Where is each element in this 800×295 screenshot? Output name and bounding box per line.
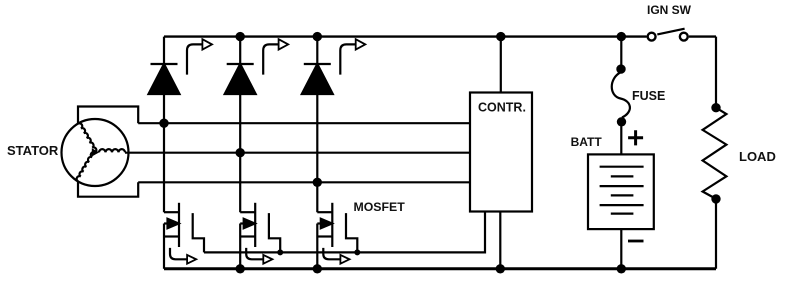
stator winding right [99, 149, 125, 152]
node top rail fuse [617, 32, 626, 41]
battery plate long 1 [600, 166, 644, 168]
node phase1 col1 [159, 119, 168, 128]
svg-text:BATT: BATT [571, 135, 603, 149]
node phase3 col3 [313, 178, 322, 187]
stator frame [78, 107, 138, 197]
node phase2 col2 [236, 148, 245, 157]
battery plate long 2 [600, 185, 644, 187]
wire load column top [715, 37, 717, 108]
node top rail col2 [236, 32, 245, 41]
node top rail contr [496, 32, 505, 41]
stator circle [62, 119, 129, 186]
battery plus sign [628, 130, 643, 145]
svg-text:LOAD: LOAD [739, 149, 776, 164]
node bottom rail contr [496, 264, 505, 273]
node load top [711, 103, 720, 112]
node load bottom [711, 194, 720, 203]
transistor Q2 (MOSFET) [240, 37, 280, 269]
switch IGN SW blade [657, 29, 684, 35]
current arrow below Q1 [170, 248, 196, 264]
battery plate short 1 [611, 175, 634, 177]
fuse F1 [612, 72, 630, 118]
stator winding upper-left [78, 122, 97, 152]
switch terminal left [648, 33, 656, 41]
wire CONTR top pin [500, 37, 502, 93]
wire fuse to battery [620, 122, 622, 155]
wire top rail [164, 35, 716, 37]
transistor Q3 (MOSFET) [317, 37, 357, 269]
node fuse top [616, 64, 625, 73]
transistor Q1 (MOSFET) [164, 37, 204, 269]
diode D1 [149, 64, 180, 94]
svg-text:STATOR: STATOR [7, 143, 59, 158]
node gate bus q3 [354, 249, 360, 255]
battery minus sign [628, 240, 644, 243]
current arrow above D1 [187, 39, 212, 74]
controller box U1 [470, 93, 532, 212]
diode D3 [302, 64, 333, 94]
wire battery bottom lead [620, 229, 622, 269]
node bottom rail col3 [313, 264, 322, 273]
wire phase 2 [125, 152, 470, 154]
diode D2 [225, 64, 256, 94]
current arrow below Q2 [246, 248, 272, 264]
wire phase 1 [138, 122, 470, 124]
battery BATT box [588, 154, 654, 229]
wire load column bottom [715, 199, 717, 269]
node top rail col3 [313, 32, 322, 41]
wire fuse column top [620, 37, 622, 69]
battery plate short 3 [611, 213, 634, 215]
node gate bus q2 [277, 249, 283, 255]
svg-text:CONTR.: CONTR. [478, 100, 526, 114]
node stator center [92, 148, 99, 156]
node bottom rail battery [617, 264, 626, 273]
node bottom rail col2 [236, 264, 245, 273]
svg-text:IGN SW: IGN SW [647, 3, 692, 17]
wire gate bus [204, 212, 485, 253]
current arrow below Q3 [323, 248, 349, 264]
current arrow above D3 [340, 39, 365, 74]
battery plate long 3 [600, 204, 644, 206]
wire bottom rail [164, 267, 716, 270]
svg-text:FUSE: FUSE [632, 89, 665, 103]
current arrow above D2 [263, 39, 288, 74]
resistor LOAD [703, 108, 727, 199]
wire CONTR bottom pin [499, 212, 501, 269]
battery plate short 2 [611, 194, 634, 196]
stator winding lower-left [76, 151, 95, 181]
svg-text:MOSFET: MOSFET [354, 200, 406, 214]
switch terminal right [680, 33, 688, 41]
wire phase 3 [138, 181, 470, 183]
node fuse bottom [617, 117, 626, 126]
